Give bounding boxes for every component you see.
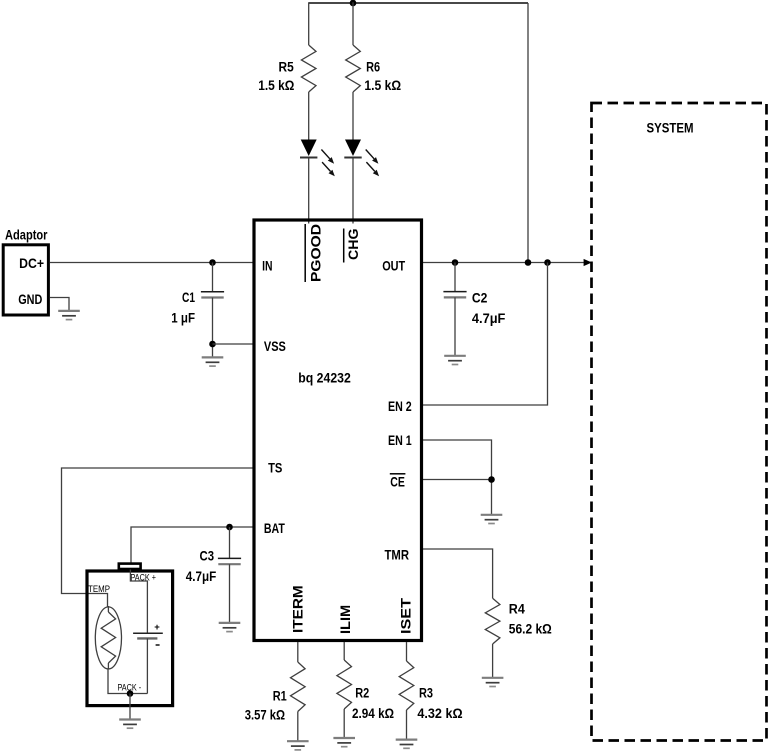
wire R5 to LED1 [308, 92, 310, 140]
wire battery to pack- [146, 638, 148, 693]
wire ILIM to R2 [343, 642, 345, 660]
node OUT/rail junction [525, 259, 532, 266]
wire BAT net [131, 527, 254, 563]
svg-text:BAT: BAT [264, 520, 285, 536]
wire EN2 net [423, 263, 548, 406]
Adaptor block [3, 245, 48, 315]
svg-text:R6: R6 [366, 60, 380, 75]
arrow into SYSTEM [584, 259, 592, 266]
svg-text:Adaptor: Adaptor [5, 227, 48, 243]
node OUT/C2 junction [452, 259, 459, 266]
wire C1 top [212, 263, 214, 292]
svg-text:4.7μF: 4.7μF [186, 569, 217, 584]
resistor R1 [290, 662, 305, 712]
svg-text:1.5 kΩ: 1.5 kΩ [364, 78, 401, 93]
svg-text:1 μF: 1 μF [171, 311, 195, 326]
SYSTEM block (dashed) [592, 103, 767, 741]
wire LED2 to CHG pin [352, 158, 354, 224]
svg-text:SYSTEM: SYSTEM [647, 121, 694, 136]
ground R2 ground [333, 738, 355, 747]
wire TMR net [423, 549, 493, 598]
svg-text:TS: TS [268, 459, 282, 475]
wire TS net [62, 468, 255, 607]
ground C1 ground [202, 357, 224, 366]
wire rail to R5 [308, 2, 310, 45]
ground CE ground [481, 515, 503, 524]
svg-text:3.57 kΩ: 3.57 kΩ [245, 707, 286, 722]
ground R1 ground [287, 741, 309, 750]
wire rail to R6 [352, 2, 354, 45]
svg-text:CHG: CHG [345, 228, 361, 260]
wire CE net to gnd [423, 480, 492, 515]
svg-text:1.5 kΩ: 1.5 kΩ [258, 78, 294, 93]
resistor R6 [346, 45, 361, 92]
svg-text:VSS: VSS [264, 338, 286, 354]
capacitor C3 [218, 558, 241, 564]
node rail junction [350, 0, 357, 6]
svg-text:CE: CE [390, 474, 405, 490]
wire ITERM to R1 [297, 642, 299, 662]
svg-text:ISET: ISET [397, 597, 413, 634]
svg-text:2.94 kΩ: 2.94 kΩ [352, 706, 394, 721]
ground pack ground [119, 720, 141, 729]
resistor R4 [485, 598, 500, 644]
IC U1 bq24232 [254, 220, 422, 641]
wire C3 bottom to gnd [229, 564, 231, 622]
CHG overline [343, 229, 345, 263]
wire R4 to gnd [492, 644, 494, 678]
node IN/C1 junction [209, 259, 216, 266]
svg-text:C2: C2 [472, 290, 488, 305]
svg-text:bq 24232: bq 24232 [298, 370, 351, 385]
CE overline [390, 473, 406, 475]
wire rail drop to OUT net [527, 3, 529, 263]
svg-text:IN: IN [262, 258, 272, 274]
node EN1/CE junction [488, 476, 495, 483]
wire EN1 net [423, 440, 492, 480]
svg-text:C3: C3 [200, 549, 215, 564]
resistor R2 [337, 660, 352, 709]
LED D2 (CHG) [344, 140, 379, 177]
svg-text:R4: R4 [509, 601, 525, 616]
wire GND stub [50, 298, 69, 311]
svg-text:PGOOD: PGOOD [308, 224, 324, 282]
svg-text:R1: R1 [273, 689, 287, 704]
svg-text:56.2 kΩ: 56.2 kΩ [509, 621, 552, 636]
svg-text:TMR: TMR [385, 547, 410, 563]
wire R2 to gnd [343, 709, 345, 738]
PGOOD overline [304, 224, 306, 282]
resistor R3 [399, 661, 414, 710]
svg-text:R5: R5 [279, 60, 295, 75]
ground R3 ground [396, 740, 418, 749]
resistor R5 [301, 45, 316, 92]
node PACK- junction [127, 690, 134, 697]
svg-text:EN 1: EN 1 [388, 432, 412, 448]
ground C3 ground [219, 623, 241, 632]
ground C2 ground [444, 356, 466, 365]
wire thermistor to pack- [108, 669, 147, 694]
svg-text:EN 2: EN 2 [388, 398, 412, 414]
wire pack- to gnd [129, 694, 131, 720]
wire C3 top [229, 527, 231, 558]
battery - sign [156, 644, 160, 646]
node BAT/C3 junction [226, 524, 233, 531]
wire OUT to SYSTEM [423, 262, 589, 264]
wire LED1 to PGOOD pin [308, 158, 310, 224]
svg-text:R3: R3 [419, 686, 433, 701]
battery cell BT1 [133, 633, 163, 638]
wire C1 bottom to gnd [212, 298, 214, 357]
svg-text:GND: GND [18, 291, 42, 307]
svg-text:ILIM: ILIM [337, 605, 353, 634]
wire VSS net [213, 343, 255, 345]
wire R1 to gnd [297, 712, 299, 742]
wire R3 to gnd [406, 710, 408, 739]
wire DC+ to IN [50, 262, 254, 264]
battery pack box [87, 571, 173, 706]
svg-text:OUT: OUT [382, 257, 405, 273]
pack top terminal [119, 564, 141, 569]
wire top rail VOUT [309, 2, 528, 4]
svg-text:PACK +: PACK + [131, 573, 157, 584]
wire R6 to LED2 [352, 92, 354, 140]
svg-text:4.7μF: 4.7μF [472, 311, 506, 326]
wire pack+ internal [130, 570, 147, 634]
node VSS junction [209, 341, 216, 348]
wire ISET to R3 [406, 642, 408, 661]
capacitor C2 [443, 292, 466, 298]
capacitor C1 [201, 292, 224, 298]
svg-text:ITERM: ITERM [290, 585, 306, 633]
svg-text:DC+: DC+ [19, 255, 44, 271]
svg-text:C1: C1 [182, 290, 195, 305]
LED D1 (PGOOD) [300, 140, 335, 177]
wire C2 top [454, 263, 456, 292]
svg-text:R2: R2 [355, 686, 369, 701]
wire C2 bottom to gnd [454, 297, 456, 355]
ground R4 ground [482, 678, 504, 687]
svg-text:TEMP: TEMP [88, 584, 110, 595]
svg-text:+: + [154, 622, 160, 633]
thermistor RT [95, 606, 121, 669]
ground adaptor ground [58, 311, 80, 320]
node OUT/EN2 junction [544, 259, 551, 266]
svg-text:4.32 kΩ: 4.32 kΩ [417, 706, 462, 721]
